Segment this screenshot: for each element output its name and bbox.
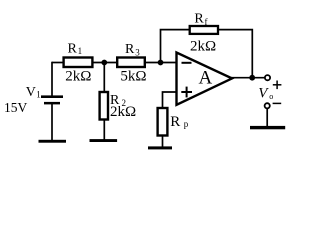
svg-text:2kΩ: 2kΩ: [110, 104, 136, 120]
label Rp: [170, 114, 189, 130]
output terminal plus circle: [265, 75, 270, 80]
resistor Rp: [158, 108, 168, 136]
wire: plus input to Rp: [163, 92, 177, 108]
ground under Rp: [148, 146, 172, 149]
resistor Rf: [190, 26, 218, 34]
node B junction dot: [158, 60, 164, 66]
svg-text:V: V: [26, 85, 36, 100]
wire: R2 bottom vertical: [103, 120, 105, 140]
svg-text:15V: 15V: [4, 100, 28, 115]
op-amp U1 triangle: [177, 53, 233, 105]
node C output junction dot: [249, 75, 255, 81]
minus sign at output: [273, 102, 282, 104]
svg-text:R: R: [170, 114, 180, 130]
svg-text:f: f: [205, 17, 208, 27]
svg-text:1: 1: [78, 46, 83, 56]
wire: minus terminal stub: [266, 109, 268, 127]
plus sign at output: [273, 81, 282, 90]
svg-text:R: R: [125, 42, 135, 57]
battery V1: [41, 95, 63, 104]
svg-text:o: o: [269, 92, 273, 101]
value 2kOhm of Rf: [190, 38, 216, 54]
resistor R3: [117, 58, 145, 68]
label 15V: [4, 100, 28, 115]
wire: op-amp output to terminal: [231, 77, 265, 79]
label R3: [125, 42, 140, 57]
wire: R1 to R3: [93, 62, 117, 64]
ground under output: [250, 126, 285, 129]
svg-text:2kΩ: 2kΩ: [65, 69, 91, 85]
svg-text:3: 3: [135, 47, 140, 57]
label Vo: [258, 86, 273, 102]
wire: feedback left vertical: [161, 30, 190, 63]
svg-text:A: A: [199, 68, 213, 89]
op-amp minus input mark: [182, 62, 192, 64]
svg-text:2kΩ: 2kΩ: [190, 38, 216, 54]
wire: feedback right side down to output: [218, 30, 252, 78]
wire: input node to R1 left: [52, 62, 63, 64]
svg-text:R: R: [194, 12, 204, 27]
svg-text:5kΩ: 5kΩ: [120, 69, 146, 85]
wire: V1 top vertical: [51, 62, 53, 96]
wire: Rp bottom vertical: [162, 136, 164, 147]
label R2: [110, 93, 126, 108]
value 5kOhm of R3: [120, 69, 146, 85]
svg-text:R: R: [68, 42, 78, 57]
svg-text:V: V: [258, 86, 269, 102]
value 2kOhm of R2: [110, 104, 136, 120]
wire: V1 bottom vertical: [51, 104, 53, 140]
resistor R2: [100, 92, 108, 120]
ground under V1: [39, 140, 67, 143]
label R1: [68, 42, 83, 57]
value 2kOhm of R1: [65, 69, 91, 85]
svg-text:1: 1: [36, 89, 41, 99]
ground under R2: [90, 139, 118, 142]
wire: node A down to R2: [103, 63, 105, 92]
node A junction dot: [101, 60, 107, 66]
label Rf: [194, 12, 207, 27]
resistor R1: [64, 58, 93, 68]
output terminal minus circle: [265, 103, 270, 108]
op-amp plus input mark: [181, 87, 192, 98]
label A: [199, 68, 213, 89]
wire: R3 to op-amp minus input: [145, 62, 177, 64]
label V1: [26, 85, 41, 100]
svg-text:p: p: [184, 119, 189, 129]
